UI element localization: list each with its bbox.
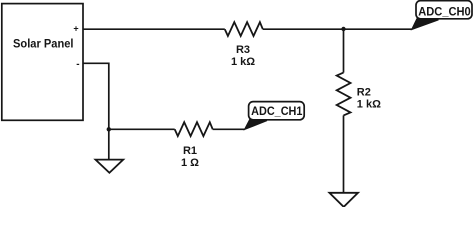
junction node dot: [107, 127, 111, 131]
svg-text:+: +: [73, 24, 78, 34]
wire junction to R1: [109, 128, 175, 130]
wire R3 to ADC_CH0 tail: [263, 28, 412, 30]
flag ADC_CH1 box: [249, 102, 305, 120]
ground right: [329, 193, 358, 207]
svg-text:Solar Panel: Solar Panel: [13, 37, 74, 51]
wire junction to ground: [108, 129, 110, 159]
resistor R2: [337, 73, 351, 116]
wire minus terminal: [83, 63, 109, 129]
flag ADC_CH0 box: [416, 1, 472, 19]
svg-text:ADC_CH0: ADC_CH0: [418, 5, 471, 19]
wire R2 to ground: [343, 115, 345, 192]
resistor R3: [225, 22, 263, 36]
svg-text:-: -: [76, 59, 79, 70]
solar panel box: [2, 4, 83, 121]
svg-text:1 kΩ: 1 kΩ: [357, 98, 381, 110]
svg-text:ADC_CH1: ADC_CH1: [251, 104, 303, 118]
junction node dot: [341, 27, 345, 31]
wire junction down to R2: [343, 29, 345, 72]
svg-text:R2: R2: [357, 87, 371, 99]
ground left: [96, 160, 124, 173]
wire R1 to ADC_CH1 tail: [213, 128, 245, 130]
flag ADC_CH1 tail: [244, 119, 267, 129]
svg-text:R1: R1: [183, 145, 197, 157]
wire plus terminal to R3: [83, 28, 225, 30]
svg-text:R3: R3: [236, 44, 250, 56]
resistor R1: [175, 122, 213, 136]
flag ADC_CH0 tail: [412, 19, 439, 30]
svg-text:1 kΩ: 1 kΩ: [231, 56, 255, 68]
svg-text:1 Ω: 1 Ω: [181, 157, 199, 169]
